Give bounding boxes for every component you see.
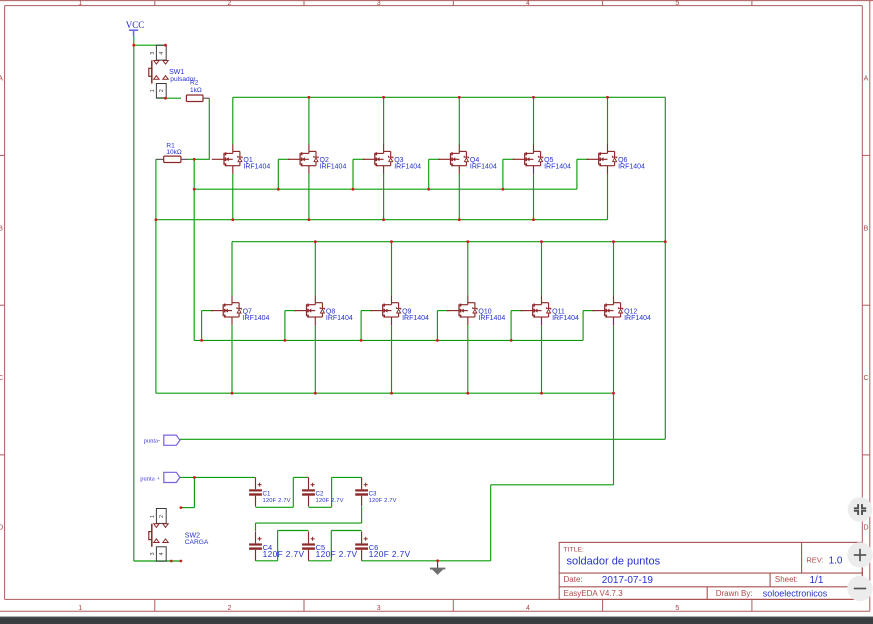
svg-text:CARGA: CARGA: [185, 539, 209, 546]
wire Q5 connections: [503, 97, 534, 219]
wire top drain rail: [233, 96, 666, 98]
wire Q10 connections: [437, 242, 467, 394]
svg-text:120F 2.7V: 120F 2.7V: [263, 498, 291, 504]
svg-text:VCC: VCC: [126, 20, 145, 30]
power flag VCC: [126, 20, 145, 36]
svg-text:C: C: [0, 375, 3, 382]
wire cap bank negative: [362, 560, 491, 562]
wire Q6 connections: [577, 97, 608, 219]
svg-text:2017-07-19: 2017-07-19: [602, 575, 654, 586]
wire R2 output drop: [208, 98, 210, 159]
wire C5 to C6 zigzag: [309, 531, 362, 561]
transistor Q3: [363, 144, 422, 174]
wire R1 lead right: [181, 158, 188, 160]
svg-text:C: C: [863, 375, 868, 382]
wire gate rail bank2: [194, 339, 583, 341]
wire C4 to C5 zigzag: [256, 531, 309, 561]
resistor R2 1k&#937;: [186, 80, 203, 102]
svg-text:B: B: [0, 226, 3, 233]
svg-text:A: A: [864, 76, 869, 83]
svg-text:120F 2.7V: 120F 2.7V: [369, 498, 397, 504]
svg-text:IRF1404: IRF1404: [478, 315, 505, 322]
node VCC wire stub: [133, 36, 135, 45]
wire negative riser: [491, 393, 614, 561]
transistor Q7: [211, 296, 270, 326]
capacitor C4 120F 2.7V: [249, 531, 304, 560]
svg-text:120F 2.7V: 120F 2.7V: [316, 498, 344, 504]
svg-text:Sheet:: Sheet:: [775, 575, 798, 584]
bottom window bar: [0, 617, 873, 624]
svg-text:2: 2: [227, 0, 231, 7]
wire source rail link: [155, 220, 157, 394]
svg-text:IRF1404: IRF1404: [402, 315, 429, 322]
wire VCC to SW1 pin4: [134, 44, 166, 46]
title block frame: [559, 542, 862, 599]
capacitor C1 120F 2.7V: [249, 477, 291, 506]
svg-text:3: 3: [377, 605, 381, 612]
wire Q2 connections: [278, 97, 309, 219]
svg-text:3: 3: [150, 552, 156, 555]
wire Q8 connections: [285, 242, 315, 394]
capacitor C2 120F 2.7V: [302, 477, 344, 506]
wire Q3 connections: [353, 97, 384, 219]
svg-text:5: 5: [675, 0, 679, 7]
resistor R1 10k&#937;: [164, 142, 182, 162]
svg-text:120F 2.7V: 120F 2.7V: [369, 549, 411, 559]
svg-text:IRF1404: IRF1404: [470, 164, 497, 171]
svg-text:2: 2: [227, 605, 231, 612]
svg-text:Date:: Date:: [564, 575, 583, 584]
wire C2 to C3 zigzag: [309, 477, 362, 507]
svg-text:C2: C2: [316, 490, 324, 497]
svg-text:D: D: [863, 525, 868, 532]
transistor Q2: [288, 144, 347, 174]
transistor Q4: [438, 144, 497, 174]
svg-text:4: 4: [526, 605, 530, 612]
zoom pan button: [848, 497, 873, 522]
title block text: [564, 547, 843, 599]
wire Q9 connections: [361, 242, 391, 394]
svg-text:IRF1404: IRF1404: [326, 315, 353, 322]
transistor Q6: [587, 144, 646, 174]
wire R1 lead left: [156, 158, 164, 160]
svg-text:3: 3: [150, 52, 156, 55]
svg-text:1: 1: [78, 605, 82, 612]
svg-text:4: 4: [159, 552, 165, 555]
transistor Q5: [513, 144, 572, 174]
transistor Q1: [212, 144, 271, 174]
ground symbol: [430, 561, 445, 575]
wire Q1 connections: [232, 97, 234, 219]
svg-text:Drawn By:: Drawn By:: [716, 589, 753, 598]
wire Q11 connections: [511, 242, 541, 394]
zoom out button: [847, 576, 872, 601]
wire gate drop to bank2: [193, 189, 195, 340]
wire C3 to C4 link: [256, 507, 362, 531]
svg-text:4: 4: [526, 0, 530, 7]
wire drain rail to punta-: [664, 97, 666, 439]
svg-text:C1: C1: [263, 490, 271, 497]
svg-text:1.0: 1.0: [829, 556, 843, 567]
svg-text:TITLE:: TITLE:: [564, 547, 585, 554]
svg-text:B: B: [864, 226, 869, 233]
wire R2 lead: [203, 97, 209, 99]
svg-text:IRF1404: IRF1404: [552, 315, 579, 322]
svg-text:2: 2: [159, 89, 165, 92]
svg-text:IRF1404: IRF1404: [624, 315, 651, 322]
wire Q12 connections: [583, 242, 613, 394]
wire gate drop: [193, 159, 195, 189]
wire left VCC rail: [133, 45, 135, 561]
zoom in button: [847, 542, 872, 567]
wire SW1 pin2 to R2: [156, 97, 181, 99]
wire rail to SW2 bottom: [134, 560, 181, 562]
transistor Q11: [521, 296, 580, 326]
wire drain rail bank2: [232, 241, 665, 243]
transistor Q10: [447, 296, 506, 326]
capacitor C3 120F 2.7V: [355, 477, 397, 506]
wire source rail bank1: [156, 219, 608, 221]
svg-text:pulsador: pulsador: [170, 76, 196, 83]
svg-text:120F 2.7V: 120F 2.7V: [316, 549, 358, 559]
svg-text:C3: C3: [369, 490, 377, 497]
svg-text:IRF1404: IRF1404: [320, 164, 347, 171]
wire R1 left drop: [155, 159, 157, 219]
svg-text:1/1: 1/1: [810, 575, 824, 586]
wire source rail bank2: [156, 392, 614, 394]
svg-text:soloelectronicos: soloelectronicos: [763, 589, 828, 599]
svg-text:D: D: [0, 525, 3, 532]
svg-text:10kΩ: 10kΩ: [166, 149, 181, 156]
svg-text:A: A: [0, 76, 3, 83]
wire punta+ net: [180, 476, 256, 478]
svg-text:soldador de puntos: soldador de puntos: [567, 555, 661, 567]
svg-text:1: 1: [150, 515, 156, 518]
wire R1 right to gate node: [188, 158, 194, 160]
port punta-: [144, 435, 180, 445]
svg-text:SW1: SW1: [169, 69, 184, 76]
svg-text:3: 3: [377, 0, 381, 7]
svg-text:5: 5: [675, 605, 679, 612]
transistor Q8: [294, 296, 353, 326]
wire Q7 connections: [202, 242, 232, 394]
svg-text:1: 1: [78, 0, 82, 7]
svg-text:1kΩ: 1kΩ: [190, 87, 202, 94]
svg-text:punta-: punta-: [144, 438, 161, 445]
svg-text:120F 2.7V: 120F 2.7V: [263, 549, 305, 559]
switch SW1 pulsador: [149, 45, 197, 98]
svg-text:IRF1404: IRF1404: [544, 164, 571, 171]
transistor Q12: [593, 296, 652, 326]
wire gate rail bank1: [194, 188, 577, 190]
svg-text:IRF1404: IRF1404: [243, 315, 270, 322]
switch SW2 CARGA: [149, 509, 209, 562]
port punta+: [140, 472, 180, 482]
capacitor C5 120F 2.7V: [302, 531, 357, 560]
svg-text:REV:: REV:: [806, 556, 823, 565]
svg-text:1: 1: [150, 89, 156, 92]
wire C1 to C2 zigzag: [256, 477, 309, 507]
svg-text:IRF1404: IRF1404: [243, 164, 270, 171]
wire punta- net: [180, 438, 665, 440]
svg-text:2: 2: [159, 515, 165, 518]
svg-text:IRF1404: IRF1404: [618, 164, 645, 171]
capacitor C6 120F 2.7V: [355, 531, 410, 560]
svg-text:4: 4: [159, 52, 165, 55]
wire Q4 connections: [429, 97, 460, 219]
svg-text:EasyEDA V4.7.3: EasyEDA V4.7.3: [564, 589, 624, 598]
wire gate node to Q1: [194, 158, 210, 160]
svg-text:punta +: punta +: [140, 476, 160, 483]
svg-text:IRF1404: IRF1404: [394, 164, 421, 171]
transistor Q9: [371, 296, 430, 326]
wire punta+ drop to SW2: [181, 477, 195, 507]
